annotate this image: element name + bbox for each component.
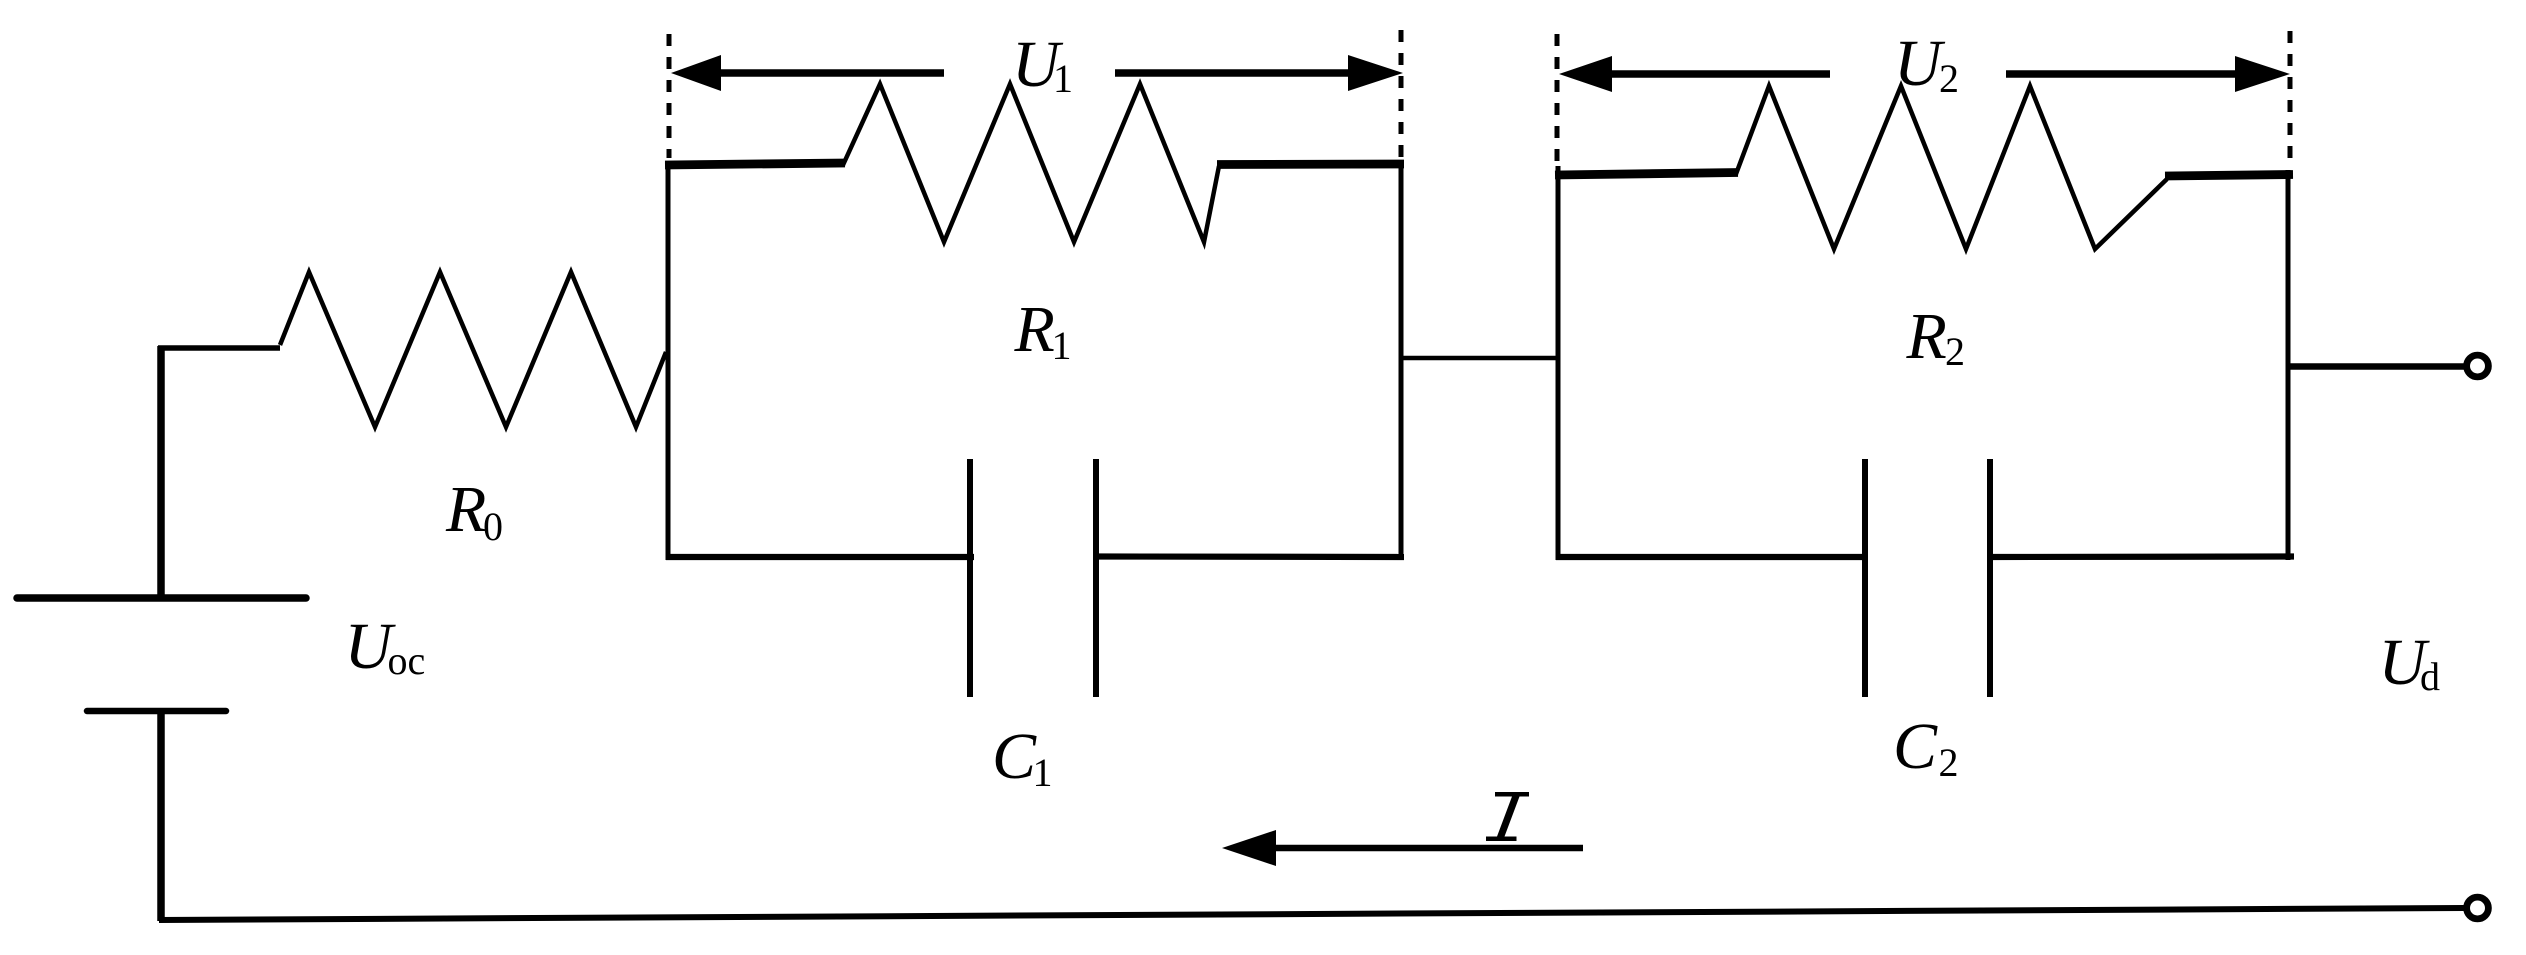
wire block1 bottom-right [1093,553,1404,560]
node block2 right vertical [2286,170,2291,560]
wire block2 bottom-right [1987,553,2294,560]
dashed node line U2 right [2288,31,2293,168]
wire output top [2288,363,2467,370]
svg-text:R: R [445,473,486,546]
wire battery top lead [157,346,165,598]
capacitor C2 left plate [1862,459,1868,697]
svg-text:oc: oc [388,638,426,683]
svg-text:d: d [2420,654,2440,699]
svg-text:C: C [992,720,1037,793]
battery U_oc long plate [17,594,306,602]
svg-text:R: R [1906,300,1947,373]
svg-text:2: 2 [1939,56,1959,101]
wire battery bottom lead [157,711,165,921]
svg-text:1: 1 [1053,56,1073,101]
resistor R2 [1736,86,2167,249]
arrow U1 right [1115,55,1403,91]
svg-text:1: 1 [1052,323,1072,368]
arrow current I [1222,830,1583,866]
node block1 right vertical [1399,160,1404,560]
svg-text:1: 1 [1033,750,1053,795]
svg-text:2: 2 [1939,740,1959,785]
capacitor C2 right plate [1987,459,1993,697]
wire middle link [1401,356,1559,361]
node block2 left vertical [1556,166,1561,560]
resistor R0 [280,272,666,427]
dashed node line U1 right [1399,30,1404,158]
svg-text:2: 2 [1945,329,1965,374]
wire block1 top-left [665,163,845,165]
wire block2 top-right [2165,175,2293,177]
terminal bottom-right [2467,897,2489,919]
svg-text:0: 0 [483,504,503,549]
capacitor C1 left plate [967,459,973,697]
arrow U2 left [1559,56,1830,92]
svg-text:R: R [1014,293,1055,366]
battery U_oc short plate [87,708,226,715]
arrow U1 left [671,55,944,91]
node block1 left vertical [666,162,671,560]
arrow U2 right [2006,56,2290,92]
dashed node line U1 left [667,34,672,158]
dashed node line U2 left [1555,34,1560,164]
wire block2 top-left [1555,173,1738,176]
wire R0 left lead [158,345,280,351]
label I [1486,792,1529,841]
wire block2 bottom-left [1556,554,1868,560]
terminal top-right [2467,355,2489,377]
wire block1 bottom-left [666,554,974,560]
capacitor C1 right plate [1093,459,1099,697]
wire block1 top-right [1217,160,1404,169]
svg-text:C: C [1893,710,1938,783]
wire bottom return [159,908,2464,920]
resistor R1 [843,84,1219,242]
